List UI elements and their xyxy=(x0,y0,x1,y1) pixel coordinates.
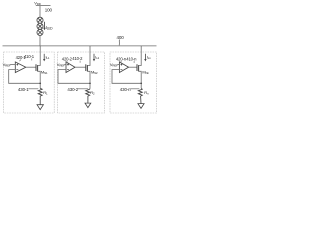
svg-text:MN1: MN1 xyxy=(41,69,48,75)
svg-text:410-2: 410-2 xyxy=(72,56,83,61)
svg-text:410-1: 410-1 xyxy=(24,54,35,59)
svg-text:VDD: VDD xyxy=(34,1,40,7)
svg-text:410-n: 410-n xyxy=(126,56,137,61)
svg-text:MNn: MNn xyxy=(142,69,149,75)
svg-text:R1: R1 xyxy=(43,90,48,96)
svg-text:Rn: Rn xyxy=(144,90,149,96)
svg-text:IL1: IL1 xyxy=(46,54,50,60)
svg-text:VREF: VREF xyxy=(110,62,118,68)
svg-text:430-n: 430-n xyxy=(120,87,131,92)
svg-text:IL2: IL2 xyxy=(95,54,99,60)
svg-text:400: 400 xyxy=(117,35,125,40)
svg-text:100: 100 xyxy=(45,7,53,12)
svg-text:MN2: MN2 xyxy=(91,69,98,75)
svg-text:VREF: VREF xyxy=(3,62,11,68)
svg-text:420-n: 420-n xyxy=(116,57,127,62)
svg-text:ILn: ILn xyxy=(147,54,151,60)
svg-text:420-2: 420-2 xyxy=(62,57,73,62)
svg-text:430-2: 430-2 xyxy=(67,87,78,92)
svg-text:R2: R2 xyxy=(90,90,95,96)
svg-text:ILED: ILED xyxy=(46,25,54,31)
svg-text:430-1: 430-1 xyxy=(18,87,29,92)
svg-text:VREF: VREF xyxy=(57,62,65,68)
